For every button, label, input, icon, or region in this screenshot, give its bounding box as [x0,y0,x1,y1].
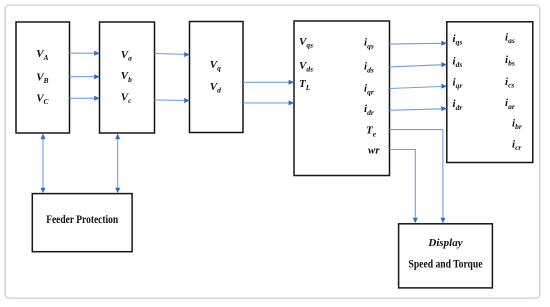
wire U2->U3 bottom [155,98,190,103]
wire U2<->Feeder Protection (double arrow) [115,134,120,194]
block Feeder Protection [32,194,132,252]
wire U3->U4 top [243,80,294,85]
wire U2->U3 top [155,52,190,57]
svg-text:Speed and Torque: Speed and Torque [409,259,483,271]
svg-text:Display: Display [427,237,462,249]
block U4 machine model (Vqs Vds TL -> iqs ids iqr idr Te wr) [294,21,390,176]
wire VC U1->U2 [70,96,100,101]
block U1 three-phase supply (VA VB VC) [16,22,70,133]
svg-text:wr: wr [368,145,380,157]
wire U3->U4 bottom [243,100,294,105]
wire idr U4->U5 [390,106,448,111]
wire VB U1->U2 [70,74,100,79]
wire U1<->Feeder Protection (double arrow) [41,134,46,194]
block Display Speed and Torque [399,224,493,288]
svg-text:Feeder Protection: Feeder Protection [46,214,118,226]
block U2 (Va Vb Vc) [100,22,155,133]
wire iqs U4->U5 [390,41,448,46]
block U5 transform (iqs ids iqr idr -> ias ibs ics iar ibr icr) [447,22,533,163]
wire Te U4->Display [390,130,446,224]
wire VA U1->U2 [70,51,100,56]
wire iqr U4->U5 [390,84,448,89]
wire ids U4->U5 [390,62,448,67]
block U3 (Vq Vd) [190,22,244,133]
wire wr U4->Display [390,150,418,224]
